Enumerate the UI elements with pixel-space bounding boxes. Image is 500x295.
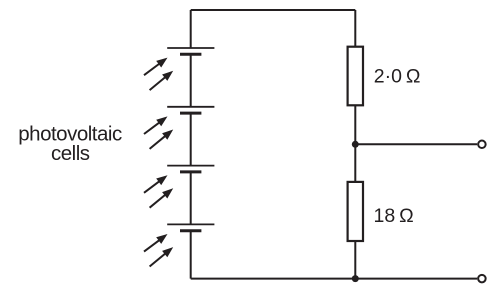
- wire: junction down to resistor R2: [354, 144, 356, 182]
- wire: cell 1 to cell 2: [190, 54, 192, 107]
- photovoltaic cell 1 (battery symbol: long + short plate): [167, 48, 214, 54]
- resistor R2 (18 ohm): [348, 182, 363, 241]
- wire: R2 down to bottom junction: [354, 241, 356, 279]
- photovoltaic cell 2 (battery symbol: long + short plate): [167, 107, 214, 113]
- light arrows onto cell 2: [144, 116, 173, 148]
- wire: cell 4 down to bottom wire: [190, 231, 192, 279]
- resistor R1 (2.0 ohm): [348, 47, 363, 106]
- svg-text:cells: cells: [51, 142, 90, 165]
- wire: right branch, top corner down to resistor R1: [354, 10, 356, 47]
- svg-text:2·0 Ω: 2·0 Ω: [374, 66, 421, 88]
- wire: R1 to junction node: [354, 105, 356, 144]
- lower output terminal (open circle): [478, 275, 486, 283]
- wire: top horizontal (battery string to resistor branch): [191, 9, 356, 11]
- upper output terminal (open circle): [478, 141, 486, 149]
- light arrows onto cell 1: [144, 58, 173, 91]
- wire: top wire down to cell 1: [190, 10, 192, 48]
- wire: cell 3 to cell 4: [190, 172, 192, 225]
- junction node (bottom, at R2): [352, 275, 359, 282]
- wire: cell 2 to cell 3: [190, 113, 192, 166]
- light arrows onto cell 3: [144, 175, 173, 208]
- photovoltaic cell 3 (battery symbol: long + short plate): [167, 166, 214, 172]
- svg-text:18 Ω: 18 Ω: [374, 205, 414, 227]
- wire: bottom horizontal (battery string to lower output terminal): [191, 278, 478, 280]
- label: photovoltaic cells: [18, 122, 122, 165]
- light arrows onto cell 4: [144, 234, 173, 267]
- junction node (between R1 and R2): [352, 141, 359, 148]
- wire: junction to upper output terminal: [355, 143, 477, 145]
- photovoltaic cell 4 (battery symbol: long + short plate): [167, 224, 214, 230]
